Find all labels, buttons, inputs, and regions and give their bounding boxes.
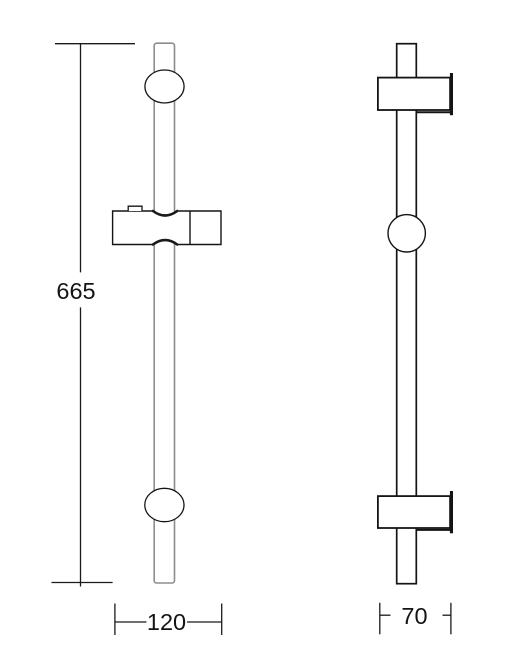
front view: holder bracket divider line [189, 211, 191, 245]
side view: bottom wall plate [450, 491, 453, 533]
dimension 120: right extension tick [221, 604, 223, 636]
dimension 120: left line segment [115, 621, 147, 623]
dimension 120: right line segment [187, 621, 222, 623]
front view: holder bracket white body (with clamp notches) [113, 211, 221, 245]
dimension 70: right extension tick [450, 603, 452, 635]
side view: top wall bracket body [378, 78, 450, 110]
svg-text:120: 120 [147, 609, 186, 635]
side view: rail bar [397, 44, 417, 584]
front view: upper slider knob (ellipse) [145, 70, 184, 103]
dimension 70: left line segment [380, 614, 391, 616]
svg-text:70: 70 [401, 603, 427, 629]
side view: middle slider knob (circle) [388, 215, 425, 252]
front view: holder bracket top tab [128, 206, 142, 211]
dimension 665: vertical dimension line (upper segment) [80, 44, 82, 273]
front view: holder bracket outline [113, 211, 221, 245]
dimension 665: vertical dimension line (lower segment) [80, 307, 82, 586]
front view: rail bar [154, 43, 174, 583]
front view: clamp bottom arc [153, 240, 177, 244]
front view: lower slider knob (ellipse) [145, 488, 184, 521]
dimension 665: bottom extension tick [52, 582, 113, 584]
side view: bottom wall bracket body [378, 496, 450, 528]
side view: bottom bracket lower arm line [417, 529, 451, 531]
side view: top wall plate [450, 73, 453, 115]
dimension 70: left extension tick [379, 603, 381, 635]
side view: top bracket lower arm line [417, 111, 451, 113]
svg-text:665: 665 [56, 278, 95, 304]
dimension 665: top extension tick [55, 43, 135, 45]
front view: clamp top arc [153, 211, 177, 216]
dimension 120: left extension tick [114, 604, 116, 636]
dimension 70: right line segment [443, 614, 451, 616]
